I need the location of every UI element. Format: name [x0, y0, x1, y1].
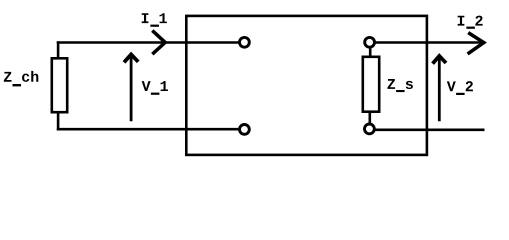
label I_2 — [458, 16, 483, 29]
wire: bottom-right horizontal — [369, 129, 484, 132]
wire: bottom-left horizontal — [57, 128, 240, 131]
label V_2 — [447, 81, 473, 95]
voltage arrow V_1 — [124, 54, 138, 121]
impedance Z_ch — [52, 58, 67, 112]
wire: Z_ch bottom stub — [57, 113, 60, 131]
terminal Z_s bottom — [365, 124, 375, 134]
terminal port1 top — [240, 37, 250, 47]
wire: top-right horizontal — [370, 41, 484, 44]
wire: Z_s top stub — [369, 42, 372, 58]
current arrow I_1 (arrowhead) — [152, 31, 165, 55]
two-port network box — [186, 16, 427, 155]
terminal Z_s top — [365, 37, 375, 47]
label Z_ch — [4, 71, 38, 87]
current arrow I_2 (arrowhead) — [468, 33, 484, 54]
impedance Z_s — [363, 57, 379, 112]
terminal port1 bottom — [240, 124, 250, 134]
label I_1 — [142, 13, 167, 27]
label Z_s — [387, 79, 412, 92]
wire: Z_s bottom stub — [368, 112, 371, 129]
voltage arrow V_2 — [433, 56, 446, 121]
label V_1 — [142, 81, 168, 95]
wire: Z_ch top stub — [57, 41, 60, 58]
wire: top-left horizontal — [57, 41, 240, 44]
